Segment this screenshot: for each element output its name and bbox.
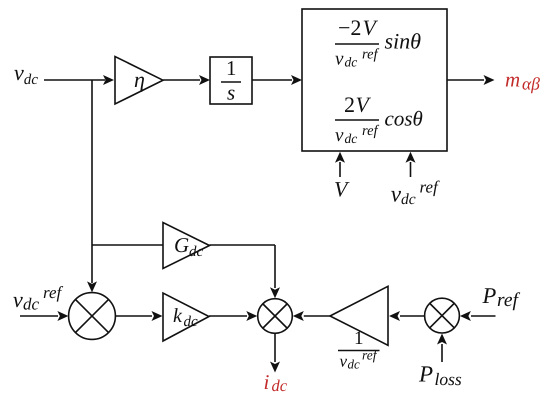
- label vdcref denominator (cos term): [335, 125, 379, 143]
- summing junction S3 cross: [429, 303, 454, 328]
- wire vdc input to eta gain: [44, 79, 105, 81]
- summing junction S1 circle: [69, 293, 116, 340]
- arrowhead Gdc down into S2: [270, 287, 280, 298]
- block modulation U1: [302, 9, 447, 151]
- wire branch to Gdc gain: [92, 244, 163, 246]
- wire 1/s to modulation block: [252, 79, 292, 81]
- wire branch from vdc node down to summing junction S1: [91, 80, 93, 283]
- label vdcref input left: [13, 286, 63, 310]
- arrowhead into eta: [103, 75, 114, 85]
- label vdcref denominator (sin term): [335, 48, 379, 66]
- arrowhead vdcref into block (up): [406, 152, 416, 163]
- wire vdcref input up arrow: [410, 162, 412, 177]
- label kdc: [174, 308, 198, 326]
- summing junction S1 cross: [75, 299, 108, 332]
- arrowhead into kdc: [152, 311, 163, 321]
- summing junction S3 circle: [425, 298, 460, 333]
- label V input: [335, 182, 350, 197]
- fraction bar sin term: [335, 43, 379, 45]
- label cos theta: [385, 111, 422, 126]
- label 1/s numerator: [228, 61, 235, 75]
- wire eta to integrator 1/s: [163, 79, 200, 81]
- block integrator 1/s: [210, 57, 252, 104]
- arrowhead Pref into S3 (left): [460, 311, 471, 321]
- label Ploss: [419, 366, 461, 385]
- fraction bar of 1/vdcref label: [338, 350, 380, 352]
- label -2V numerator: [339, 20, 378, 35]
- wire Gdc to corner above S2: [210, 244, 276, 246]
- label vdcref input below block: [391, 181, 440, 205]
- arrowhead output m_alphabeta: [484, 75, 495, 85]
- arrowhead idc output (down): [270, 362, 280, 373]
- arrowhead Ploss up into S3: [437, 334, 447, 345]
- gain kdc triangle: [163, 293, 209, 341]
- label 1/vdcref denominator: [340, 350, 378, 369]
- arrowhead inverse gain into S2 (left): [293, 311, 304, 321]
- arrowhead into modulation block: [291, 75, 302, 85]
- wire V input up arrow: [339, 162, 341, 177]
- wire S2 output down to idc: [274, 334, 276, 362]
- wire Ploss input up to S3: [441, 344, 443, 362]
- label 1/s denominator: [227, 90, 234, 100]
- wire output to m_alphabeta: [447, 79, 484, 81]
- fraction bar cos term: [335, 119, 379, 121]
- arrowhead kdc into S2: [246, 311, 257, 321]
- label eta: [135, 77, 144, 92]
- label vdc input: [14, 70, 38, 84]
- wire vdcref input to S1: [20, 315, 58, 317]
- wire S3 to inverse gain: [400, 315, 424, 317]
- wire inverse gain to S2: [304, 315, 330, 317]
- label idc output: [265, 375, 287, 391]
- arrowhead V into block (up): [335, 152, 345, 163]
- gain 1/vdcref triangle (points left): [330, 286, 388, 345]
- arrowhead vdcref into S1: [57, 311, 68, 321]
- label Pref: [482, 288, 520, 310]
- wire kdc to S2: [209, 315, 247, 317]
- label Gdc: [175, 238, 203, 256]
- wire Pref input to S3: [471, 315, 496, 317]
- summing junction S2 circle: [258, 299, 293, 334]
- summing junction S2 cross: [263, 304, 288, 329]
- fraction bar of 1/s: [221, 81, 241, 83]
- gain Gdc triangle: [163, 223, 210, 269]
- gain eta triangle: [115, 57, 163, 105]
- arrowhead S3 into inverse gain (left): [389, 311, 400, 321]
- arrowhead into 1/s: [199, 75, 210, 85]
- wire corner down into S2: [274, 245, 276, 288]
- arrowhead down into S1: [87, 281, 97, 292]
- wire S1 to kdc gain: [116, 315, 152, 317]
- label m_alphabeta output: [506, 77, 540, 94]
- label sin theta: [385, 33, 421, 49]
- label 1/vdcref numerator: [356, 332, 363, 345]
- label 2V numerator: [345, 97, 371, 112]
